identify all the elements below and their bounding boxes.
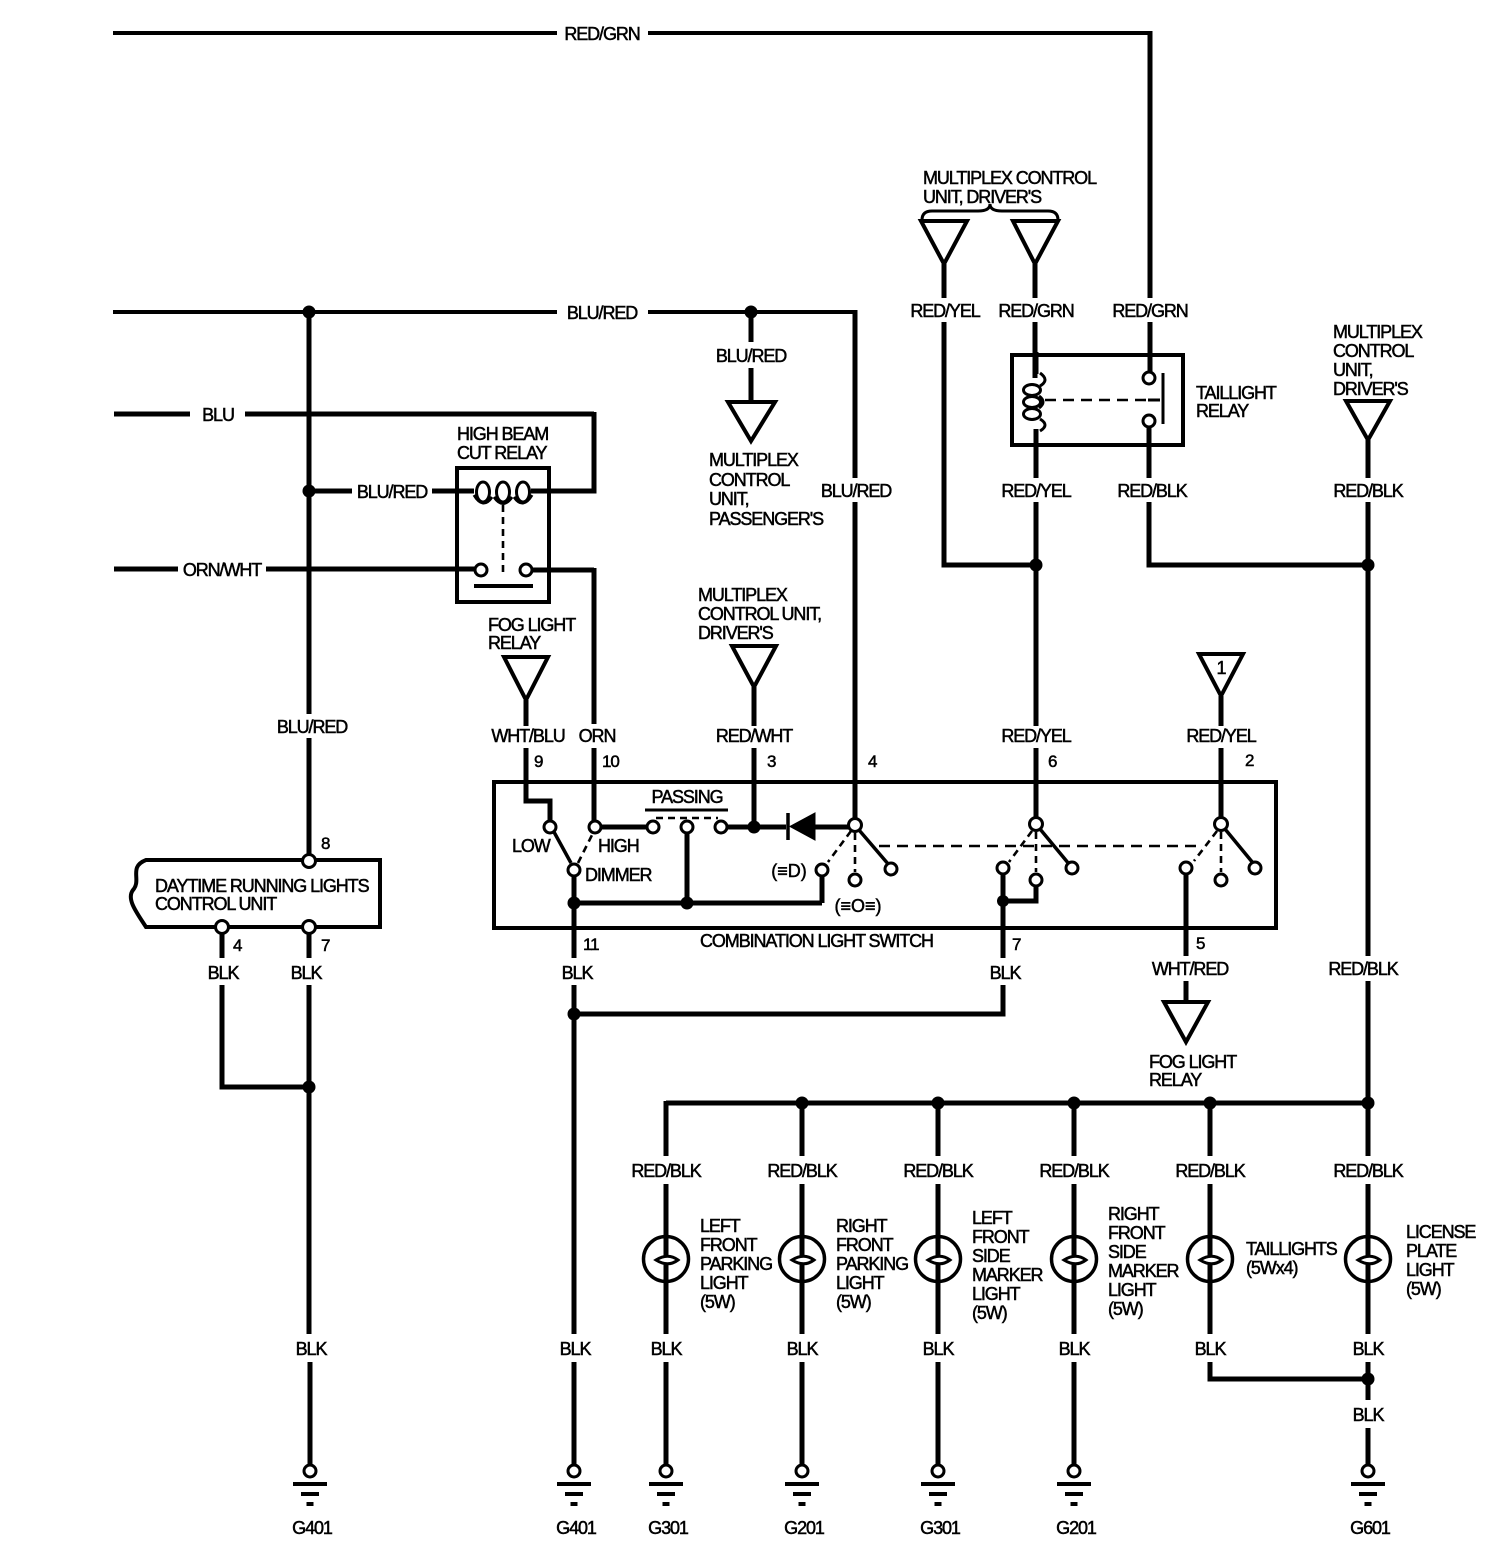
lighting switch common contact (pin 4) bbox=[849, 819, 862, 832]
wire gang2 middle contact jog to pin7 column bbox=[1003, 886, 1036, 901]
svg-text:RED/BLK: RED/BLK bbox=[903, 1161, 973, 1181]
svg-text:(5W): (5W) bbox=[972, 1303, 1007, 1323]
wire BLK from DRL pin 4 bbox=[208, 934, 303, 1087]
svg-text:CONTROL UNIT: CONTROL UNIT bbox=[155, 894, 277, 914]
svg-text:PASSENGER'S: PASSENGER'S bbox=[709, 509, 824, 529]
ground G201 (right front side marker light) bbox=[1056, 1465, 1097, 1538]
gang 2 wiper solid bbox=[1040, 829, 1069, 864]
svg-text:BLK: BLK bbox=[560, 1339, 592, 1359]
relay K1 switch armature bar bbox=[474, 584, 533, 588]
svg-text:9: 9 bbox=[534, 752, 543, 771]
svg-text:BLU/RED: BLU/RED bbox=[821, 481, 892, 501]
gang 3 common contact (pin 2) bbox=[1215, 818, 1228, 831]
passing contact middle (output) bbox=[681, 821, 693, 833]
svg-text:DRIVER'S: DRIVER'S bbox=[1333, 379, 1409, 399]
svg-text:RIGHT: RIGHT bbox=[1108, 1204, 1160, 1224]
svg-text:MARKER: MARKER bbox=[1108, 1261, 1180, 1281]
relay K1 HIGH BEAM CUT RELAY box bbox=[457, 468, 549, 602]
wire RED/BLK to left front side marker light bbox=[903, 1103, 973, 1240]
svg-text:8: 8 bbox=[321, 834, 330, 853]
svg-text:FRONT: FRONT bbox=[1108, 1223, 1166, 1243]
svg-text:MULTIPLEX: MULTIPLEX bbox=[698, 585, 788, 605]
ground G201 (right front parking light) bbox=[784, 1465, 825, 1538]
wire RED/BLK to taillights bbox=[1175, 1103, 1245, 1240]
lighting switch wiper dashed to headlight contact bbox=[828, 831, 851, 862]
relay K2 coil wires bbox=[1034, 352, 1039, 478]
wire ORN from relay to combination switch pin 10 bbox=[532, 568, 619, 821]
svg-text:BLK: BLK bbox=[1059, 1339, 1091, 1359]
junction bus at x=802 bbox=[796, 1097, 809, 1110]
wire RED/YEL from driver's multiplex bbox=[910, 264, 1030, 565]
relay K1 contact left (to ORN/WHT) bbox=[475, 564, 487, 576]
svg-text:LIGHT: LIGHT bbox=[836, 1273, 885, 1293]
wire BLU/RED horizontal bus bbox=[113, 303, 855, 323]
wire RED/WHT to combination switch pin 3 bbox=[716, 687, 793, 827]
svg-text:PLATE: PLATE bbox=[1406, 1241, 1457, 1261]
svg-text:BLU/RED: BLU/RED bbox=[277, 717, 348, 737]
svg-text:LIGHT: LIGHT bbox=[1108, 1280, 1157, 1300]
wire BLU left feed bbox=[114, 405, 594, 425]
gang 2 common contact (pin 6) bbox=[1030, 818, 1043, 831]
svg-text:RED/GRN: RED/GRN bbox=[1112, 301, 1187, 321]
lamp RIGHT FRONT SIDE MARKER LIGHT (5W) bbox=[1052, 1204, 1180, 1319]
junction bus at x=1368 bbox=[1362, 1097, 1375, 1110]
junction taillights ground join at (1368,1379) bbox=[1362, 1373, 1375, 1386]
wire RED/BLK to license plate light bbox=[1333, 1103, 1403, 1240]
wire BLK from license plate light to ground bbox=[1353, 1281, 1385, 1465]
pin 7 connector circle bbox=[303, 921, 316, 934]
pin 4 connector circle bbox=[216, 921, 229, 934]
lamp LICENSE PLATE LIGHT (5W) bbox=[1346, 1222, 1477, 1299]
wire BLU/RED to passenger multiplex bbox=[716, 312, 787, 402]
svg-text:RED/YEL: RED/YEL bbox=[910, 301, 980, 321]
svg-text:WHT/BLU: WHT/BLU bbox=[491, 726, 564, 746]
svg-text:BLU/RED: BLU/RED bbox=[357, 482, 428, 502]
svg-text:G401: G401 bbox=[292, 1518, 333, 1538]
svg-text:BLK: BLK bbox=[296, 1339, 328, 1359]
svg-text:PARKING: PARKING bbox=[836, 1254, 908, 1274]
wire RED/BLK lamp supply bus bbox=[666, 1101, 1368, 1106]
junction gang2 output bbox=[997, 895, 1009, 907]
svg-text:G201: G201 bbox=[784, 1518, 825, 1538]
svg-text:LICENSE: LICENSE bbox=[1406, 1222, 1476, 1242]
svg-text:BLK: BLK bbox=[1353, 1339, 1385, 1359]
svg-text:WHT/RED: WHT/RED bbox=[1152, 959, 1229, 979]
switch S1 COMBINATION LIGHT SWITCH box bbox=[494, 782, 1276, 928]
svg-text:DAYTIME RUNNING LIGHTS: DAYTIME RUNNING LIGHTS bbox=[155, 876, 370, 896]
contact headlight (≡D) bbox=[816, 864, 828, 876]
svg-text:FRONT: FRONT bbox=[700, 1235, 758, 1255]
svg-text:HIGH BEAM: HIGH BEAM bbox=[457, 424, 548, 444]
svg-text:LEFT: LEFT bbox=[700, 1216, 741, 1236]
svg-text:UNIT, DRIVER'S: UNIT, DRIVER'S bbox=[923, 187, 1042, 207]
junction pin 3 wire meets passing rail bbox=[748, 821, 761, 834]
svg-text:COMBINATION LIGHT SWITCH: COMBINATION LIGHT SWITCH bbox=[700, 931, 933, 951]
wire pin 7 output down bbox=[1001, 874, 1006, 958]
svg-text:LEFT: LEFT bbox=[972, 1208, 1013, 1228]
relay K1 coil bbox=[474, 482, 532, 504]
wire BLK from left front parking light to ground bbox=[651, 1281, 683, 1465]
wire BLK from taillights to license plate light column bbox=[1195, 1281, 1362, 1379]
svg-text:CUT RELAY: CUT RELAY bbox=[457, 443, 548, 463]
svg-text:CONTROL: CONTROL bbox=[1333, 341, 1414, 361]
relay K2 TAILLIGHT RELAY box bbox=[1012, 355, 1183, 445]
svg-text:G301: G301 bbox=[648, 1518, 689, 1538]
svg-text:LOW: LOW bbox=[512, 836, 551, 856]
gang 3 wiper solid bbox=[1225, 829, 1253, 863]
svg-text:LIGHT: LIGHT bbox=[700, 1273, 749, 1293]
svg-text:1: 1 bbox=[1217, 658, 1227, 678]
wire RED/GRN top bus bbox=[113, 24, 1152, 44]
wire RED/YEL from connector 1 to combination switch pin 2 bbox=[1186, 696, 1256, 818]
svg-text:MULTIPLEX CONTROL: MULTIPLEX CONTROL bbox=[923, 168, 1097, 188]
junction bus at x=938 bbox=[932, 1097, 945, 1110]
svg-text:PASSING: PASSING bbox=[652, 787, 723, 807]
svg-text:(5W): (5W) bbox=[836, 1292, 871, 1312]
junction BLK at (309,1087) bbox=[303, 1081, 316, 1094]
junction bus at x=1210 bbox=[1204, 1097, 1217, 1110]
gang 3 contact middle bbox=[1215, 874, 1227, 886]
wire DIMMER contact to rail bbox=[572, 876, 577, 903]
connector triangle (driver's multiplex, RED/YEL) bbox=[921, 221, 967, 264]
svg-text:FRONT: FRONT bbox=[972, 1227, 1030, 1247]
svg-text:(≡D): (≡D) bbox=[771, 861, 807, 881]
wire RED/BLK from taillight relay switch bbox=[1117, 427, 1362, 565]
pin 8 connector circle bbox=[303, 855, 316, 868]
wire HIGH to passing contact bbox=[601, 825, 647, 830]
svg-text:FOG LIGHT: FOG LIGHT bbox=[1149, 1052, 1237, 1072]
svg-text:RED/YEL: RED/YEL bbox=[1001, 481, 1071, 501]
svg-text:BLK: BLK bbox=[208, 963, 240, 983]
passing contact right bbox=[715, 821, 727, 833]
svg-text:RED/YEL: RED/YEL bbox=[1001, 726, 1071, 746]
svg-text:4: 4 bbox=[233, 936, 242, 955]
svg-text:RED/WHT: RED/WHT bbox=[716, 726, 793, 746]
wire RED/BLK to left front parking light bbox=[631, 1101, 701, 1240]
svg-text:G401: G401 bbox=[556, 1518, 597, 1538]
svg-text:G201: G201 bbox=[1056, 1518, 1097, 1538]
svg-text:G301: G301 bbox=[920, 1518, 961, 1538]
svg-text:RED/BLK: RED/BLK bbox=[1039, 1161, 1109, 1181]
wire BLK from right front parking light to ground bbox=[787, 1281, 819, 1465]
svg-text:RED/BLK: RED/BLK bbox=[1333, 481, 1403, 501]
junction bus at x=1074 bbox=[1068, 1097, 1081, 1110]
wire RED/BLK right column down to lamp bus bbox=[1328, 565, 1398, 1103]
relay K1 contact right (to ORN) bbox=[520, 564, 532, 576]
svg-text:RIGHT: RIGHT bbox=[836, 1216, 888, 1236]
svg-text:11: 11 bbox=[583, 935, 599, 954]
svg-text:(5Wx4): (5Wx4) bbox=[1246, 1258, 1298, 1278]
svg-text:RED/YEL: RED/YEL bbox=[1186, 726, 1256, 746]
wire RED/BLK to right front parking light bbox=[767, 1103, 837, 1240]
connector triangle (driver's multiplex, RED/GRN) bbox=[1013, 221, 1058, 264]
contact position 2 of lighting switch bbox=[885, 863, 897, 875]
svg-text:PARKING: PARKING bbox=[700, 1254, 772, 1274]
relay K2 TAILLIGHT RELAY label bbox=[1196, 383, 1277, 421]
svg-text:CONTROL UNIT,: CONTROL UNIT, bbox=[698, 604, 821, 624]
contact LOW bbox=[544, 821, 556, 833]
wire ORN/WHT left feed bbox=[114, 560, 475, 580]
ganged switch dashed link rail bbox=[879, 845, 1198, 848]
svg-text:7: 7 bbox=[1012, 935, 1021, 954]
dimmer switch wiper DIMMER-HIGH (dashed) bbox=[578, 835, 592, 863]
wire BLK from left front side marker light to ground bbox=[923, 1281, 955, 1465]
svg-text:MARKER: MARKER bbox=[972, 1265, 1044, 1285]
connector triangle 1 (to combination switch pin 2) bbox=[1199, 654, 1243, 696]
wire headlight contact down to dimmer rail bbox=[820, 876, 825, 903]
junction BLU/RED bus to left column bbox=[303, 306, 316, 319]
node PASSING label and underline bbox=[645, 787, 728, 810]
svg-text:(5W): (5W) bbox=[1406, 1279, 1441, 1299]
passing contact left bbox=[647, 821, 659, 833]
passing switch dashed bar bbox=[656, 817, 718, 820]
svg-text:RELAY: RELAY bbox=[1149, 1070, 1202, 1090]
svg-text:BLK: BLK bbox=[787, 1339, 819, 1359]
svg-text:SIDE: SIDE bbox=[972, 1246, 1011, 1266]
svg-text:BLK: BLK bbox=[1195, 1339, 1227, 1359]
svg-text:2: 2 bbox=[1245, 751, 1254, 770]
lamp LEFT FRONT PARKING LIGHT (5W) bbox=[644, 1216, 773, 1312]
svg-text:(5W): (5W) bbox=[700, 1292, 735, 1312]
relay K2 armature dashed link bbox=[1045, 399, 1146, 402]
svg-text:BLK: BLK bbox=[291, 963, 323, 983]
wire dimmer output rail bbox=[574, 901, 822, 906]
svg-text:CONTROL: CONTROL bbox=[709, 470, 790, 490]
gang 2 contact left (pin 7 output) bbox=[997, 862, 1009, 874]
svg-text:BLK: BLK bbox=[923, 1339, 955, 1359]
gang 3 wiper dashed left bbox=[1194, 831, 1217, 861]
svg-text:RED/GRN: RED/GRN bbox=[998, 301, 1073, 321]
diode D1 (pointing left) bbox=[788, 813, 849, 840]
svg-text:FOG LIGHT: FOG LIGHT bbox=[488, 615, 576, 635]
svg-text:RED/GRN: RED/GRN bbox=[564, 24, 639, 44]
wire BLK from pin 11 down bbox=[560, 903, 594, 1465]
junction dimmer rail at passing output bbox=[681, 897, 694, 910]
svg-text:UNIT,: UNIT, bbox=[709, 489, 749, 509]
wire BLU/RED right branch down to combination switch pin 4 bbox=[821, 310, 892, 820]
svg-text:HIGH: HIGH bbox=[598, 836, 639, 856]
contact HIGH bbox=[589, 821, 601, 833]
svg-text:BLU/RED: BLU/RED bbox=[567, 303, 638, 323]
svg-text:MULTIPLEX: MULTIPLEX bbox=[709, 450, 799, 470]
wire RED/YEL down to combination switch pin 6 bbox=[1001, 565, 1071, 818]
svg-text:TAILLIGHT: TAILLIGHT bbox=[1196, 383, 1277, 403]
svg-text:RED/BLK: RED/BLK bbox=[767, 1161, 837, 1181]
relay K2 contact top bbox=[1143, 372, 1155, 384]
lamp LEFT FRONT SIDE MARKER LIGHT (5W) bbox=[916, 1208, 1044, 1323]
svg-text:BLK: BLK bbox=[1353, 1405, 1385, 1425]
ground G401 (left column) bbox=[292, 1465, 333, 1538]
svg-text:7: 7 bbox=[321, 936, 330, 955]
junction BLU/RED bus to passenger multiplex bbox=[745, 306, 758, 319]
svg-text:DRIVER'S: DRIVER'S bbox=[698, 623, 774, 643]
gang 3 wiper dashed middle bbox=[1220, 832, 1223, 872]
svg-text:RELAY: RELAY bbox=[1196, 401, 1249, 421]
svg-text:MULTIPLEX: MULTIPLEX bbox=[1333, 322, 1423, 342]
gang 2 wiper dashed middle bbox=[1035, 832, 1038, 872]
svg-text:BLK: BLK bbox=[562, 963, 594, 983]
svg-text:BLU: BLU bbox=[202, 405, 234, 425]
svg-text:DIMMER: DIMMER bbox=[585, 865, 652, 885]
svg-text:TAILLIGHTS: TAILLIGHTS bbox=[1246, 1239, 1338, 1259]
wire RED/BLK from right multiplex down bbox=[1333, 440, 1403, 565]
ground G301 (left front parking light) bbox=[648, 1465, 689, 1538]
connector triangle MULTIPLEX CONTROL UNIT DRIVER'S (right) bbox=[1333, 322, 1423, 440]
wire RED/GRN vertical drop to taillight relay bbox=[1112, 31, 1187, 373]
relay K1 HIGH BEAM CUT RELAY label bbox=[457, 424, 548, 463]
junction BLK columns at (574,1014) bbox=[568, 1008, 581, 1021]
svg-text:6: 6 bbox=[1048, 752, 1057, 771]
relay K2 contact bar bbox=[1162, 373, 1165, 424]
junction RED/BLK at (1368,565) bbox=[1362, 559, 1375, 572]
lamp RIGHT FRONT PARKING LIGHT (5W) bbox=[780, 1216, 909, 1312]
svg-text:(5W): (5W) bbox=[1108, 1299, 1143, 1319]
connector triangle to fog light relay (bottom) bbox=[1149, 1002, 1237, 1090]
relay K2 coil bbox=[1024, 373, 1046, 431]
gang 2 contact right bbox=[1066, 862, 1078, 874]
connector triangle MULTIPLEX CONTROL UNIT PASSENGER'S bbox=[709, 402, 824, 529]
svg-text:RELAY: RELAY bbox=[488, 633, 541, 653]
wire RED/BLK to right front side marker light bbox=[1039, 1103, 1109, 1240]
svg-text:3: 3 bbox=[767, 752, 776, 771]
contact park position bbox=[849, 874, 861, 886]
svg-text:LIGHT: LIGHT bbox=[1406, 1260, 1455, 1280]
ground G401 (pin 11 column) bbox=[556, 1465, 597, 1538]
wire BLK from DRL pin 7 to ground bbox=[291, 934, 328, 1465]
connector triangle MULTIPLEX CONTROL UNIT DRIVER'S (mid) bbox=[698, 585, 821, 687]
wire passing output down to dimmer output rail bbox=[685, 833, 690, 903]
ground G301 (left front side marker light) bbox=[920, 1465, 961, 1538]
svg-text:LIGHT: LIGHT bbox=[972, 1284, 1021, 1304]
connector group MULTIPLEX CONTROL UNIT, DRIVER'S label and brace bbox=[922, 168, 1097, 220]
svg-text:10: 10 bbox=[602, 752, 619, 771]
dimmer switch wiper LOW-DIMMER (solid) bbox=[554, 832, 571, 863]
svg-text:RED/BLK: RED/BLK bbox=[631, 1161, 701, 1181]
wire BLU/RED left column vertical bbox=[277, 312, 348, 856]
svg-text:RED/BLK: RED/BLK bbox=[1175, 1161, 1245, 1181]
svg-text:BLK: BLK bbox=[990, 963, 1022, 983]
gang 3 contact left (pin 5 output) bbox=[1180, 862, 1192, 874]
relay K2 contact bottom bbox=[1143, 415, 1155, 427]
unit DRL CONTROL UNIT box (torn left edge) bbox=[131, 860, 380, 927]
wire RED/GRN from driver's multiplex to taillight relay coil bbox=[998, 264, 1073, 378]
svg-text:BLK: BLK bbox=[651, 1339, 683, 1359]
svg-text:SIDE: SIDE bbox=[1108, 1242, 1147, 1262]
svg-text:5: 5 bbox=[1196, 934, 1205, 953]
contact DIMMER common bbox=[568, 864, 580, 876]
wire BLK from pin 7 join to pin 11 column bbox=[574, 963, 1021, 1014]
wire WHT/RED from pin 5 down bbox=[1152, 874, 1229, 1003]
svg-text:BLU/RED: BLU/RED bbox=[716, 346, 787, 366]
wire passing right contact to pin3 node and diode bbox=[727, 825, 786, 830]
svg-text:ORN: ORN bbox=[579, 726, 616, 746]
relay K2 armature tick bbox=[1148, 399, 1160, 402]
svg-text:RED/BLK: RED/BLK bbox=[1328, 959, 1398, 979]
svg-text:4: 4 bbox=[868, 752, 877, 771]
svg-text:RED/BLK: RED/BLK bbox=[1333, 1161, 1403, 1181]
junction dimmer rail at pin 11 bbox=[568, 897, 581, 910]
gang 2 wiper dashed left bbox=[1009, 831, 1032, 862]
gang 2 contact middle bbox=[1030, 874, 1042, 886]
lamp TAILLIGHTS (5Wx4) bbox=[1188, 1237, 1338, 1282]
junction RED/YEL at (1036,565) bbox=[1030, 559, 1043, 572]
svg-text:FRONT: FRONT bbox=[836, 1235, 894, 1255]
svg-text:UNIT,: UNIT, bbox=[1333, 360, 1373, 380]
svg-text:G601: G601 bbox=[1350, 1518, 1391, 1538]
junction BLU/RED branch to high beam cut relay coil bbox=[303, 485, 316, 498]
lighting switch wiper solid (common to position 2) bbox=[859, 830, 889, 865]
svg-text:RED/BLK: RED/BLK bbox=[1117, 481, 1187, 501]
ground G601 (license plate light) bbox=[1350, 1465, 1391, 1538]
wire BLU down to relay coil right side bbox=[531, 412, 594, 491]
connector triangle FOG LIGHT RELAY (from fog light relay) bbox=[488, 615, 576, 700]
wire RED/YEL from taillight relay coil down bbox=[1001, 481, 1071, 565]
wire BLK from right front side marker light to ground bbox=[1059, 1281, 1091, 1465]
wire BLU/RED to high beam cut relay coil bbox=[309, 482, 474, 502]
gang 3 contact right bbox=[1249, 862, 1261, 874]
lighting switch wiper dashed to park contact bbox=[854, 833, 857, 872]
relay K1 armature dashed link bbox=[502, 505, 505, 574]
svg-text:ORN/WHT: ORN/WHT bbox=[183, 560, 262, 580]
svg-text:(≡O≡): (≡O≡) bbox=[835, 896, 882, 916]
wire WHT/BLU from fog light relay to combination switch pin 9 bbox=[491, 700, 564, 821]
